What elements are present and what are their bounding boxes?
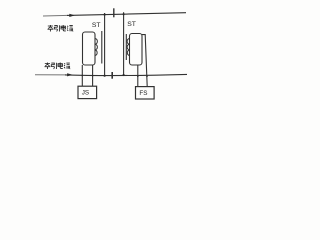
- svg-text:JS: JS: [82, 90, 89, 97]
- svg-text:FS: FS: [139, 90, 147, 97]
- svg-text:ST: ST: [127, 21, 136, 28]
- svg-text:ST: ST: [92, 22, 101, 29]
